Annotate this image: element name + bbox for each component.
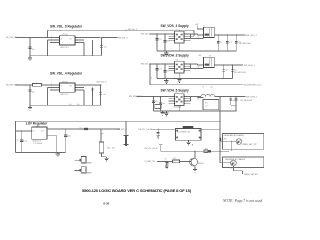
inductor box T5 [204,27,215,37]
wire to inductor box lower [191,68,204,70]
capacitor input B of block 7 [160,96,162,111]
wire to inductor box lower [191,38,204,40]
svg-text:U2 1117: U2 1117 [62,34,68,36]
wire osc output to right [201,129,220,131]
junction output cap node reg2 [100,84,101,85]
ground [106,157,108,158]
wire input [150,33,175,35]
svg-text:OUT: OUT [69,86,72,88]
wire gnd pin of U10 (side exit) [47,135,57,137]
spark gap E1 [236,139,242,145]
pins of U2 (right) [75,37,84,39]
wire bottom rail [157,50,236,52]
wire bottom ground rail [30,104,102,106]
wire output extension reg1 [102,37,118,39]
ground [166,165,168,167]
capacitor input B of block 5 [164,34,166,51]
wire to inductor box upper [191,33,198,35]
wire to spark gap top [220,140,236,142]
svg-text:MC34063: MC34063 [174,106,181,108]
pins of U6 (left) [169,63,175,65]
small mark above wire [192,144,193,145]
wire from +5V to inductor box [196,26,198,29]
wire output [214,34,245,36]
pins of U7 (left) [169,95,175,97]
svg-text:D7: D7 [197,99,199,101]
svg-text:U6: U6 [176,60,178,62]
wire to oscillator [151,128,176,130]
component under block 3 [155,104,161,108]
wire tap down from input [149,64,151,85]
svg-text:10u: 10u [104,47,107,49]
svg-text:10u: 10u [103,94,106,96]
resistor R13 [172,160,179,163]
capacitor output 1 of block 7 [230,97,232,106]
wire drop right of IC 1 [83,90,85,105]
pins of U3 (right) [75,84,84,86]
wire below R9 [101,153,103,157]
switcher IC U6 [175,61,185,73]
wire collector up [194,151,196,158]
svg-text:R12: R12 [205,149,208,151]
wire output [84,84,102,86]
svg-text:C8: C8 [164,158,166,160]
wire top line drop into block [193,30,195,36]
junction b3 output to spark drop [219,96,220,97]
svg-text:CAL/BOARD AT CHASSIS: CAL/BOARD AT CHASSIS [224,134,245,137]
capacitor C8 [166,161,168,165]
wire IC bottom drop [178,73,180,79]
wire IC bottom drop [178,43,180,51]
svg-text:R30: R30 [107,148,110,150]
svg-text:5500-120 LOGIC BOARD VER C SCH: 5500-120 LOGIC BOARD VER C SCHEMATIC (PA… [82,188,192,193]
svg-text:D3: D3 [80,127,82,129]
inductor box T6 [204,57,215,67]
svg-text:SW_VDL_2=1.8V: SW_VDL_2=1.8V [138,129,152,131]
wire to inductor box upper [191,63,198,65]
svg-text:1:1.5: 1:1.5 [205,106,209,108]
wire emitter down [194,166,196,168]
switcher IC U7 [175,94,185,106]
capacitor plates on drop x92.5 reg2 [91,88,93,90]
svg-text:X_PWR_ON: X_PWR_ON [145,161,156,163]
capacitor C6 (input cap 1.8V reg) [21,131,23,153]
junction [158,129,159,130]
wire to SPARK_GAP_BOT [232,166,234,171]
svg-text:SW_VDL_4: SW_VDL_4 [96,82,106,84]
capacitor C2a (input bulk cap) [29,38,31,56]
svg-text:10u: 10u [162,103,165,105]
svg-text:U7: U7 [176,92,178,94]
wire page power rail [16,120,220,122]
svg-text:SW_VDL_0: SW_VDL_0 [141,34,151,36]
svg-text:OUT: OUT [69,38,72,40]
box CAL/BOARD AT CHASSIS (top) [222,133,263,149]
svg-text:SW_VDH_3: SW_VDH_3 [244,65,256,67]
svg-text:D5: D5 [197,36,199,38]
pins of U3 (left) [50,84,60,86]
svg-text:U5: U5 [176,30,178,32]
svg-text:10u: 10u [32,49,35,51]
svg-text:R9: R9 [102,133,104,135]
svg-text:4: 4 [261,85,262,87]
oscillator Y1 [176,129,202,141]
capacitor C7 (output cap) [65,129,67,153]
svg-text:OUT: OUT [41,131,44,133]
junction input node [29,84,30,85]
junction at input cap [21,130,22,131]
wire adj drop left of IC [48,39,51,41]
wire IC to inductor [191,96,201,98]
stub IC top to top line [179,30,181,31]
capacitor input A of block 5 [156,34,158,51]
pin marks U10 [31,131,32,132]
svg-text:R30: R30 [224,138,227,140]
capacitor output 1 of block 5 [217,35,219,51]
svg-text:SW_PWR_REG_3/4: SW_PWR_REG_3/4 [243,85,259,87]
svg-text:IN: IN [33,131,34,133]
wire output [84,37,101,39]
wire output of U10 [47,128,120,130]
svg-text:0.1u: 0.1u [229,41,232,43]
svg-text:SW_VDS_3 Supply: SW_VDS_3 Supply [161,24,189,28]
svg-text:SW_VDL_0: SW_VDL_0 [128,29,137,31]
pins of U5 (right) [184,33,190,35]
svg-text:10u: 10u [232,100,235,102]
svg-text:0.1u: 0.1u [159,68,162,70]
wire long rail SW_PWR_REG_3/4 [150,84,243,86]
wire bottom ground rail [30,55,102,57]
pin pads of Y1 [176,130,178,132]
wire input drop at left [15,121,17,152]
svg-text:10u: 10u [77,104,80,106]
svg-text:SPARK_GAP_BOT: SPARK_GAP_BOT [244,173,259,176]
regulator IC U3 [60,83,76,92]
ground [157,134,159,136]
svg-text:SW_VDH_3 Supply: SW_VDH_3 Supply [161,53,190,57]
svg-text:T1: T1 [203,26,205,28]
wire pins right join [190,64,192,69]
ground [29,56,31,58]
svg-text:0.1u: 0.1u [234,70,237,72]
regulator IC U10 [32,127,47,139]
wire base circuit [157,160,173,162]
ground [29,105,31,107]
wire adj drop left of IC [48,86,51,88]
svg-text:10u: 10u [220,41,223,43]
diode D3 on output wire [84,128,88,130]
svg-text:LM1117-3.3: LM1117-3.3 [60,47,68,49]
wire to inductor box upper [191,95,198,97]
ground under block 3 [162,111,164,113]
ground under IC block2 [178,78,180,79]
wire from bottom net up to spark gap [230,141,232,151]
wire bottom ground rail of 1.8V block [16,152,66,154]
svg-text:8-30: 8-30 [103,201,109,205]
svg-text:SPARK_GAP_TOP: SPARK_GAP_TOP [242,143,257,146]
wire bottom net [161,150,230,152]
svg-text:NOTE: Page 7 is not used.: NOTE: Page 7 is not used. [222,199,263,203]
wire bottom rail [157,77,232,79]
capacitor output 2 of block 6 [231,65,233,79]
junction input node [29,37,30,38]
wire drop right of IC 2 [92,40,94,56]
wire pins right join [190,34,192,39]
junction output cap node reg1 [101,37,102,38]
wire output [214,64,243,66]
svg-text:SW_VDH_5: SW_VDH_5 [246,97,258,99]
wire drop from mini rail [235,105,237,111]
svg-text:IN: IN [61,38,62,40]
svg-text:RT1: RT1 [205,103,208,105]
wire output mini rail [231,104,236,106]
svg-text:SW_VDL_0 Regulator: SW_VDL_0 Regulator [50,24,83,28]
junction [166,161,167,162]
ground of block [165,111,167,113]
wire feedback top line of regulator 1 [47,30,49,37]
pins of U5 (left) [169,33,175,35]
svg-text:C6: C6 [16,140,18,142]
svg-text:0.1u: 0.1u [69,104,72,106]
svg-text:LM1117-3.3: LM1117-3.3 [60,94,68,96]
capacitor C12 (osc decoupling) [157,129,159,135]
resistor R30 (on drop) [219,138,221,142]
box CAL/BOARD AT CHASSIS (bottom) [222,157,263,168]
wire output [215,96,246,98]
ground under oscillator [188,140,190,142]
transistor Q2 [190,158,198,166]
connector stub [159,144,162,146]
resistor R9 body [99,142,103,153]
wire rail drop to spark area [219,97,221,163]
svg-text:10u: 10u [210,86,213,88]
fuse F3 (series element) [32,84,41,87]
ground [194,168,196,169]
junction on top line [125,30,126,31]
capacitor C3a (input bulk cap) [29,85,31,105]
capacitor C3b (output cap reg2) [100,85,102,105]
ground of block [165,51,167,53]
ground of block [165,78,167,80]
wire drop right of IC 2 [92,87,94,105]
capacitor input A of block 6 [156,64,158,79]
net tie symbol on rail (x126) [125,121,127,135]
svg-text:10u: 10u [32,92,35,94]
capacitor input A of block 7 [153,96,155,111]
resistor R12 (on bottom wire) [204,150,208,153]
wire input [16,37,51,39]
svg-text:U3 1117: U3 1117 [62,82,68,84]
junction with bottom net [219,151,220,152]
svg-text:10u: 10u [68,135,71,137]
capacitor output 1 of block 6 [223,65,225,79]
wire IC bottom drop [178,105,180,111]
svg-text:R13: R13 [173,158,176,160]
svg-text:0.1u: 0.1u [155,101,158,103]
svg-text:SW_VDL_2: SW_VDL_2 [117,129,127,131]
spark gap E2 [231,160,237,166]
junction at resistor drop [100,128,101,129]
svg-text:E2: E2 [230,167,232,169]
pins of U6 (right) [184,63,190,65]
pins of U7 (right) [184,95,190,97]
svg-text:SW_VDL_2=1.8V: SW_VDL_2=1.8V [145,148,159,150]
test point TP2 [75,169,80,171]
regulator IC U2 [60,36,76,45]
svg-text:U10: U10 [36,125,39,127]
svg-text:T3: T3 [202,86,204,88]
module box under inductor [203,100,219,110]
junction [231,141,232,142]
wire input to U10 [16,130,32,132]
wire input [137,95,175,97]
switcher IC U5 [175,31,185,43]
capacitor input B of block 6 [164,64,166,79]
svg-text:D6: D6 [197,66,199,68]
svg-text:CAL/BOARD AT CHASSIS: CAL/BOARD AT CHASSIS [225,158,246,161]
svg-text:2N3904: 2N3904 [198,163,204,165]
capacitor C2b (output cap reg1) [101,38,103,56]
wire into spark gap bottom [220,162,231,164]
pins of U2 (left) [50,37,60,39]
wire pins right join [190,96,192,101]
capacitor output 2 of block 5 [226,35,228,51]
svg-text:T2: T2 [209,56,211,58]
junction on output wire [82,128,83,129]
svg-text:SW_VDL_4 Regulator: SW_VDL_4 Regulator [50,72,83,76]
svg-text:SW_VDL_0: SW_VDL_0 [118,37,128,39]
ground [57,153,59,154]
wire drop right of IC 1 [83,43,85,56]
inductor L3 (humps) [201,94,215,96]
svg-text:24.576MHZ OSC: 24.576MHZ OSC [177,131,191,133]
wire input [150,63,175,65]
capacitor output 3 of block 5 [235,35,237,51]
wire bottom rail block 3 [154,110,237,112]
svg-text:0.1u: 0.1u [159,38,162,40]
wire to base [179,160,191,162]
wire input [16,84,33,86]
resistor R9 drop [100,129,102,142]
test point TP1 [75,159,80,161]
svg-text:SW_VDS_3: SW_VDS_3 [246,35,258,37]
capacitor output 2 of block 7 [235,97,237,106]
svg-text:10u: 10u [225,70,228,72]
svg-text:IN: IN [61,86,62,88]
svg-text:SW_VDL_4: SW_VDL_4 [141,64,151,66]
svg-text:0.1u: 0.1u [24,140,27,142]
